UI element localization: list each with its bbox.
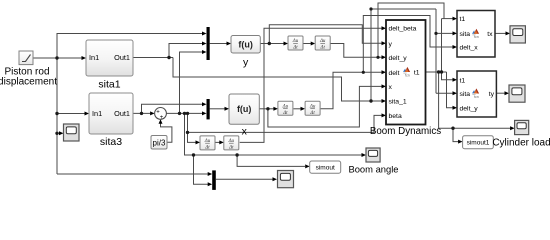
svg-text:fcn: fcn [474,95,479,99]
svg-text:simout: simout [316,164,335,171]
svg-text:sita3: sita3 [100,136,122,148]
svg-text:sita: sita [460,91,471,98]
svg-text:Cylinder load: Cylinder load [492,138,550,149]
svg-text:t1: t1 [460,77,466,84]
svg-text:ty: ty [489,91,495,98]
svg-text:t1: t1 [460,16,466,23]
svg-text:Out1: Out1 [114,53,130,62]
svg-text:Δt: Δt [292,46,298,51]
svg-text:f(u): f(u) [238,39,253,49]
svg-text:sita: sita [460,31,471,38]
svg-text:Out1: Out1 [114,109,130,118]
svg-text:delt_y: delt_y [389,55,408,62]
svg-text:Δt: Δt [309,111,315,116]
svg-text:y: y [389,41,393,48]
svg-text:t1: t1 [414,70,420,77]
svg-text:beta: beta [389,113,402,120]
svg-text:sita1: sita1 [98,79,120,91]
svg-text:delt_y: delt_y [460,105,479,112]
svg-text:Boom angle: Boom angle [348,164,398,175]
svg-text:Δt: Δt [320,46,326,51]
svg-text:tx: tx [487,31,493,38]
svg-text:y: y [243,57,249,69]
svg-text:In1: In1 [89,53,99,62]
svg-text:Δt: Δt [282,111,288,116]
svg-text:delt: delt [389,70,400,77]
svg-text:displacement: displacement [0,77,57,88]
svg-text:fcn: fcn [474,35,479,39]
svg-text:delt_x: delt_x [460,45,479,52]
svg-text:x: x [242,126,248,138]
svg-text:simout1: simout1 [467,140,490,147]
svg-text:sita_1: sita_1 [389,99,407,106]
svg-text:+: + [160,115,164,121]
svg-text:Δt: Δt [204,146,210,151]
svg-text:f(u): f(u) [237,104,252,114]
svg-text:delt_beta: delt_beta [389,26,417,33]
svg-text:Boom Dynamics: Boom Dynamics [370,126,441,137]
svg-text:In1: In1 [92,109,102,118]
svg-text:pi/3: pi/3 [153,138,166,147]
svg-text:fcn: fcn [405,73,410,77]
svg-text:x: x [389,84,393,91]
svg-text:Δt: Δt [228,146,234,151]
